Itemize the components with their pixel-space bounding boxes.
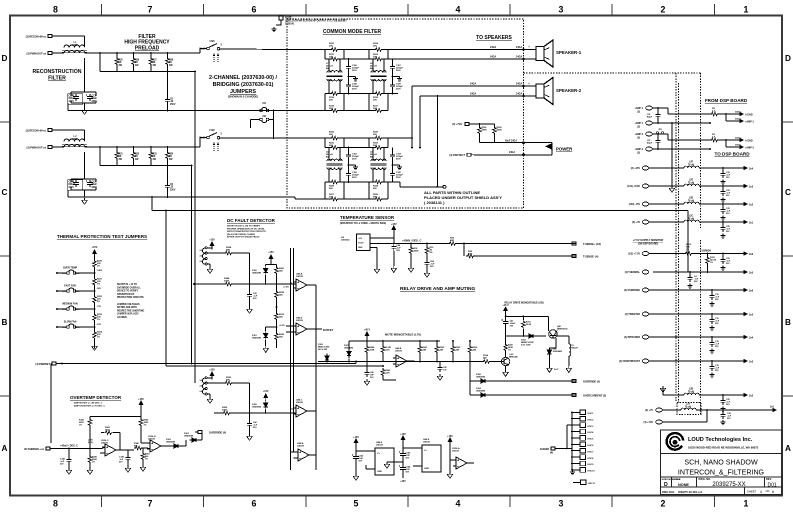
svg-text:2x3: 2x3 <box>749 186 754 189</box>
svg-text:UN4148M: UN4148M <box>166 440 175 443</box>
wire vs <box>370 237 394 239</box>
svg-text:24 K: 24 K <box>386 348 391 351</box>
inductor L2F <box>684 166 699 168</box>
svg-text:24K: 24K <box>279 294 283 297</box>
svg-text:8: 8 <box>53 5 58 15</box>
svg-text:1%: 1% <box>144 424 147 426</box>
resistor R34 mute <box>469 340 471 342</box>
svg-text:45pF: 45pF <box>647 116 653 119</box>
output arrow <box>738 394 747 397</box>
svg-text:+15V: +15V <box>400 433 406 436</box>
svg-text:1%: 1% <box>97 301 100 303</box>
diode D48 <box>547 348 551 357</box>
input pin PWM-OUT ch2 <box>48 146 55 149</box>
wire <box>699 185 738 187</box>
svg-text:U336-A: U336-A <box>452 447 460 450</box>
svg-text:24K: 24K <box>423 348 427 351</box>
wire T-SENSE- <box>475 255 576 257</box>
wire <box>71 189 96 191</box>
pin (4) FRONT/BOOST <box>642 359 649 363</box>
svg-text:(4) +7VA: (4) +7VA <box>644 421 654 424</box>
svg-text:+AMP-1: +AMP-1 <box>635 107 644 110</box>
svg-text:(4) FRONT/BOOST: (4) FRONT/BOOST <box>619 360 641 363</box>
svg-text:FROM DSP BOARD: FROM DSP BOARD <box>705 98 748 103</box>
power +45V <box>365 332 369 340</box>
svg-text:OVERRIDE (4): OVERRIDE (4) <box>209 432 226 435</box>
resistor R305 <box>479 124 481 126</box>
svg-text:3: 3 <box>559 499 564 509</box>
svg-text:24GA: 24GA <box>516 56 523 59</box>
svg-text:+: + <box>528 82 530 86</box>
wire speaker1 minus <box>388 58 536 60</box>
pin +7VA bottom oval <box>656 420 663 424</box>
relay bus wire <box>318 361 470 363</box>
wire ladder rails lower <box>368 94 370 111</box>
wire <box>57 308 67 310</box>
svg-text:82uF: 82uF <box>92 98 98 100</box>
svg-text:200K: 200K <box>222 410 228 412</box>
svg-text:2x5: 2x5 <box>749 272 754 275</box>
svg-text:24K: 24K <box>279 316 283 319</box>
svg-text:+15V: +15V <box>263 391 269 393</box>
op-amp U48-D <box>293 323 310 335</box>
svg-text:2: 2 <box>661 5 666 15</box>
svg-text:56.8K: 56.8K <box>526 324 532 326</box>
pin (3) +15V <box>642 166 649 170</box>
capacitor C164 <box>392 148 394 153</box>
svg-text:2K: 2K <box>135 62 138 64</box>
svg-text:2x4: 2x4 <box>749 337 754 340</box>
svg-text:RELAY: RELAY <box>571 346 578 349</box>
capacitor C13 <box>86 94 93 101</box>
svg-text:A: A <box>2 444 8 453</box>
svg-text:(4) PROTECT: (4) PROTECT <box>449 154 465 157</box>
svg-text:RECONSTRUCTION: RECONSTRUCTION <box>33 69 82 75</box>
svg-text:1%: 1% <box>97 337 100 339</box>
svg-text:3: 3 <box>559 5 564 15</box>
capacitor C4 <box>689 272 691 275</box>
svg-text:1%: 1% <box>508 349 511 351</box>
svg-text:24GA: 24GA <box>516 93 523 96</box>
capacitor filter <box>722 203 724 205</box>
resistor R223 <box>224 381 233 385</box>
svg-text:76 uH: 76 uH <box>685 406 692 408</box>
svg-text:5: 5 <box>354 499 359 509</box>
svg-text:L2E: L2E <box>689 180 694 182</box>
ground <box>271 27 276 32</box>
wire <box>99 147 101 166</box>
wire choke to lower ladder <box>372 168 374 183</box>
svg-text:GND: GND <box>358 247 363 249</box>
svg-text:U48-D: U48-D <box>296 317 303 320</box>
inductor L2E <box>684 184 699 186</box>
svg-text:56K: 56K <box>226 380 230 382</box>
wire <box>273 111 275 139</box>
wire cap rail ch1 <box>84 58 86 92</box>
wire dsp ground drop <box>671 123 673 186</box>
svg-text:24K: 24K <box>483 357 487 360</box>
preload resistors ch2 <box>116 147 118 151</box>
svg-text:8: 8 <box>53 499 58 509</box>
svg-text:240R: 240R <box>497 129 502 132</box>
capacitor C169 <box>392 77 394 83</box>
wire <box>474 154 552 156</box>
svg-text:THERMAL PROTECTION TEST JUMPER: THERMAL PROTECTION TEST JUMPERS <box>57 234 147 239</box>
svg-text:86R: 86R <box>450 240 454 242</box>
svg-text:+15V: +15V <box>209 370 215 372</box>
wire <box>57 326 67 328</box>
svg-text:+45mV / DEG. C: +45mV / DEG. C <box>60 444 78 447</box>
svg-text:2x4: 2x4 <box>749 168 754 171</box>
wire cmf ch1 lower input <box>295 110 325 112</box>
pin +AMP1 <box>646 106 653 110</box>
svg-text:280K: 280K <box>414 251 419 253</box>
svg-text:2039275-XX-D01.sch: 2039275-XX-D01.sch <box>678 491 703 494</box>
svg-text:+45V: +45V <box>400 480 406 483</box>
wire ladder rails <box>324 50 326 60</box>
svg-text:1%: 1% <box>97 319 100 321</box>
svg-text:JUMPER VOLTAGES: JUMPER VOLTAGES <box>117 303 140 306</box>
svg-text:6: 6 <box>772 490 774 494</box>
svg-text:+15VMON: +15VMON <box>700 251 711 253</box>
svg-text:76 uH: 76 uH <box>688 218 695 220</box>
svg-text:COMMON MODE FILTER: COMMON MODE FILTER <box>323 29 382 35</box>
op-amp U336D <box>147 440 164 452</box>
svg-text:.63V: .63V <box>97 324 102 326</box>
svg-text:U49-B: U49-B <box>395 347 402 350</box>
IC U49-E <box>422 445 441 472</box>
svg-text:1: 1 <box>744 5 749 15</box>
svg-text:7: 7 <box>148 5 153 15</box>
svg-text:TO DSP BOARD: TO DSP BOARD <box>714 152 750 157</box>
ground hatch <box>349 164 356 166</box>
resistor R30 <box>426 244 428 247</box>
pin (4) INTRUDER <box>642 335 649 339</box>
pin +AMP2 <box>646 132 653 136</box>
svg-text:2x6: 2x6 <box>749 290 754 293</box>
svg-text:.: . <box>529 54 530 58</box>
wire <box>662 409 681 411</box>
svg-text:2K: 2K <box>119 156 122 158</box>
svg-text:R27: R27 <box>153 60 158 62</box>
svg-text:L2F: L2F <box>689 162 694 164</box>
svg-text:250V: 250V <box>352 70 357 72</box>
svg-text:1%: 1% <box>686 249 689 251</box>
svg-text:R224: R224 <box>226 246 232 249</box>
svg-text:AMP MUTES @ +80 DEG. C: AMP MUTES @ +80 DEG. C <box>74 402 103 405</box>
resistor R344 feedback <box>104 431 113 435</box>
resistor R222 ladder <box>93 295 97 304</box>
svg-text:24K: 24K <box>279 336 283 339</box>
svg-text:+15V: +15V <box>138 398 144 401</box>
wire <box>649 336 738 338</box>
resistor R247 <box>505 342 507 343</box>
svg-text:1%: 1% <box>79 424 82 426</box>
power +15V lower <box>264 394 268 402</box>
svg-text:L2B: L2B <box>689 389 694 391</box>
svg-text:RELAY DRIVE AND AMP MUTING: RELAY DRIVE AND AMP MUTING <box>400 286 476 292</box>
svg-text:24K: 24K <box>456 348 460 351</box>
capacitor <box>711 290 713 293</box>
svg-text:BUFFET: BUFFET <box>323 328 334 332</box>
svg-text:2W5: 2W5 <box>73 138 79 141</box>
svg-text:1%: 1% <box>97 283 100 285</box>
capacitor C42 <box>249 413 251 421</box>
jumper loop 2 <box>202 259 205 264</box>
svg-text:2W5: 2W5 <box>73 44 79 47</box>
power flag <box>551 143 553 155</box>
svg-text:50V: 50V <box>694 281 698 283</box>
resistor R249 <box>88 455 92 464</box>
resistor R2 <box>710 138 719 142</box>
wire <box>55 35 85 37</box>
capacitor filter <box>722 185 724 187</box>
svg-text:U48-E: U48-E <box>376 441 383 444</box>
wire <box>55 52 64 54</box>
output arrow <box>738 289 747 292</box>
wire long vertical B <box>194 72 196 384</box>
jumper loop 2 <box>202 389 205 394</box>
svg-text:24K: 24K <box>279 270 283 273</box>
capacitor C206 <box>72 180 79 187</box>
svg-text:2K: 2K <box>169 62 172 64</box>
svg-text:HSC9: HSC9 <box>588 464 595 466</box>
wire speaker1 plus <box>344 49 369 51</box>
wire <box>649 203 684 205</box>
op-amp U49-B lower <box>295 449 312 461</box>
svg-text:MMB 486: MMB 486 <box>509 355 519 358</box>
svg-text:5.6V 1/2W: 5.6V 1/2W <box>521 344 530 346</box>
svg-text:1%: 1% <box>97 266 100 268</box>
wire cap rail ch2 <box>84 152 86 179</box>
jumper loop 1 <box>202 254 205 259</box>
svg-text:(MOUNTED TO L2 CORE + NORTH SI: (MOUNTED TO L2 CORE + NORTH SIDE) <box>340 222 386 225</box>
svg-text:+15V: +15V <box>92 246 98 249</box>
svg-text:JUMPER IN PLACE/: JUMPER IN PLACE/ <box>117 313 139 316</box>
svg-text:(3) RECON+IN-xx: (3) RECON+IN-xx <box>26 36 47 39</box>
svg-text:PROPER OPERATION OF DC LEVEL: PROPER OPERATION OF DC LEVEL <box>227 227 265 230</box>
ground <box>82 108 88 114</box>
capacitor C167 <box>392 59 394 64</box>
svg-text:.: . <box>529 92 530 96</box>
wire <box>207 377 212 379</box>
pin +7.5V <box>642 252 649 256</box>
svg-text:2 NC: 2 NC <box>209 129 215 132</box>
resistor R18 <box>410 244 412 247</box>
svg-text:A GND: A GND <box>745 114 753 117</box>
op-amp U336-A group <box>448 438 452 446</box>
wire ladder rails lower <box>324 94 326 111</box>
wire cmf ch1 input <box>287 49 325 51</box>
pin (3) +4V <box>642 220 649 224</box>
svg-text:OVERCURRENT (3): OVERCURRENT (3) <box>583 395 606 398</box>
svg-text:L2A: L2A <box>686 403 691 406</box>
svg-text:AFTER OUTPUT STAGE FAULT.: AFTER OUTPUT STAGE FAULT. <box>227 236 260 239</box>
HSC pin 8 square <box>580 455 586 460</box>
svg-text:24 K: 24 K <box>386 371 391 374</box>
svg-text:250V: 250V <box>170 104 176 106</box>
power +15V U48-E <box>354 439 358 447</box>
svg-text:(1/3) +7.5V: (1/3) +7.5V <box>628 253 640 256</box>
svg-text:24GA: 24GA <box>470 83 477 86</box>
svg-text:HSC5: HSC5 <box>588 439 595 441</box>
svg-text:820uF: 820uF <box>69 98 76 100</box>
svg-text:1: 1 <box>744 499 749 509</box>
ground arrow left <box>387 461 403 463</box>
diode D164 <box>479 393 488 397</box>
ground hatch <box>393 164 400 166</box>
jumper J42 bridging <box>260 118 263 121</box>
svg-text:R25: R25 <box>119 60 124 62</box>
power +15V <box>392 226 396 234</box>
capacitor C165 <box>392 165 394 171</box>
wire ladder rails <box>368 50 370 60</box>
svg-text:20K: 20K <box>329 99 333 101</box>
wire <box>220 137 287 139</box>
svg-text:(3) +4V: (3) +4V <box>632 221 640 224</box>
svg-text:200K: 200K <box>224 281 230 283</box>
svg-text:1%: 1% <box>92 461 95 463</box>
wire <box>649 221 684 223</box>
svg-text:76 uH: 76 uH <box>688 164 695 166</box>
svg-text:4 NC: 4 NC <box>209 40 215 43</box>
svg-text:U48-C: U48-C <box>296 399 303 402</box>
svg-text:( 2038141 ): ( 2038141 ) <box>424 200 445 205</box>
svg-text:(4) OVERRIDE: (4) OVERRIDE <box>624 289 640 292</box>
capacitor filter <box>722 394 724 396</box>
resistor R32 mute <box>436 340 438 342</box>
svg-text:+45 V: +45 V <box>364 329 371 332</box>
svg-text:SPEAKER-2: SPEAKER-2 <box>556 88 582 93</box>
svg-text:UN4148M: UN4148M <box>252 271 261 274</box>
transistor Q42 <box>501 357 510 365</box>
svg-text:24GA: 24GA <box>490 56 497 59</box>
wire <box>699 394 738 396</box>
svg-text:(3) RECON+IN-xx: (3) RECON+IN-xx <box>26 130 47 133</box>
pin PROTECT <box>467 153 474 156</box>
svg-text:(4) PWRDET: (4) PWRDET <box>35 363 50 366</box>
pin CHGND <box>551 447 558 450</box>
wire <box>249 253 251 284</box>
ground hatch <box>349 76 356 78</box>
svg-text:(4) TWEETER: (4) TWEETER <box>625 313 641 316</box>
svg-text:24GA: 24GA <box>516 83 523 86</box>
LOUD logo <box>667 433 684 450</box>
svg-text:HSC7: HSC7 <box>588 451 595 453</box>
svg-text:LM339: LM339 <box>376 445 384 447</box>
svg-text:MMBT3906: MMBT3906 <box>557 328 568 330</box>
wire <box>207 247 212 249</box>
svg-text:250V: 250V <box>396 158 401 160</box>
shield note pin <box>276 16 283 25</box>
arrow 3x1 <box>767 409 776 412</box>
resistor R253 <box>522 316 524 320</box>
svg-text:INTERCON_&_FILTERING: INTERCON_&_FILTERING <box>678 469 764 477</box>
resistor R224 <box>224 251 233 255</box>
relay monostable rail <box>504 307 508 315</box>
pin +7VA <box>465 123 472 126</box>
input pin PWM-OUT ch1 <box>48 52 55 55</box>
ground <box>355 461 357 474</box>
svg-text:FILTER: FILTER <box>48 76 66 82</box>
svg-text:LM339: LM339 <box>423 442 431 444</box>
svg-text:2039275-XX: 2039275-XX <box>712 482 745 488</box>
wire ladder rails lower <box>368 182 370 199</box>
op-amp U336C <box>102 444 119 456</box>
svg-text:JUMPERS: JUMPERS <box>230 89 256 95</box>
svg-text:C: C <box>785 188 791 197</box>
HSC11 square <box>581 480 587 485</box>
svg-text:28V & 5W: 28V & 5W <box>318 349 327 351</box>
svg-text:UN4148M: UN4148M <box>184 434 193 437</box>
svg-text:SCALE: SCALE <box>673 478 681 481</box>
svg-text:UN4148M: UN4148M <box>476 375 485 378</box>
input pin RECON+IN ch2 <box>48 129 55 132</box>
svg-text:45pF: 45pF <box>647 142 653 145</box>
power +15V <box>139 401 143 409</box>
svg-text:24GA: 24GA <box>516 46 523 49</box>
svg-text:(3): (3) <box>637 152 640 154</box>
svg-text:LM339: LM339 <box>297 446 305 448</box>
speaker SPEAKER-1 <box>536 40 553 67</box>
ground hatch <box>570 470 575 475</box>
svg-text:24GA: 24GA <box>735 137 741 140</box>
arrow 2x6 <box>738 252 747 255</box>
svg-text:76 uH: 76 uH <box>688 391 695 393</box>
output arrow <box>738 185 747 188</box>
inductor L2A <box>681 408 696 410</box>
svg-text:TO SPEAKERS: TO SPEAKERS <box>476 35 512 41</box>
resistor R238 <box>276 284 278 290</box>
pin OVERRIDE mid <box>195 431 202 434</box>
svg-text:UN4148M: UN4148M <box>553 350 562 353</box>
wire PWRDET bus <box>59 363 356 365</box>
svg-text:SHIELD OR M4 SCR ON HP OUTPUT: SHIELD OR M4 SCR ON HP OUTPUT ETC FOILMO… <box>285 19 347 22</box>
svg-text:SHEET: SHEET <box>747 490 757 494</box>
diode D160 <box>264 266 268 275</box>
svg-text:86R: 86R <box>468 254 472 256</box>
capacitor U48-E bypass <box>355 451 357 454</box>
svg-text:LOADED.: LOADED. <box>117 316 128 319</box>
ground <box>82 198 88 204</box>
svg-text:DEVICE TO VERIFY: DEVICE TO VERIFY <box>117 291 139 293</box>
wire long vertical A <box>191 166 193 364</box>
resistor R251 <box>141 452 145 461</box>
svg-text:R248: R248 <box>224 277 230 280</box>
common mode filter dashed outline <box>287 19 524 208</box>
wire long rail ch2 bottom <box>68 196 295 198</box>
svg-text:GND: GND <box>377 471 382 473</box>
svg-text:CHGND: CHGND <box>540 448 549 451</box>
svg-text:24GA: 24GA <box>509 151 515 154</box>
wire <box>699 221 738 223</box>
svg-text:UN4148M: UN4148M <box>476 389 485 392</box>
wire <box>652 107 668 109</box>
pin AGND2 <box>646 147 653 151</box>
wire choke to lower ladder <box>328 79 330 94</box>
svg-text:C205: C205 <box>69 96 75 98</box>
svg-text:6: 6 <box>252 5 257 15</box>
wire <box>699 203 738 205</box>
wire power rail <box>479 135 481 143</box>
wire HSC inner rail <box>566 425 568 448</box>
resistor R241 <box>276 265 278 266</box>
svg-text:50V: 50V <box>430 266 434 268</box>
wire <box>649 167 684 169</box>
svg-text:D: D <box>785 54 791 63</box>
svg-text:IN-THERMAL+xx: IN-THERMAL+xx <box>24 448 44 451</box>
wire pwrdet drop <box>50 364 52 444</box>
